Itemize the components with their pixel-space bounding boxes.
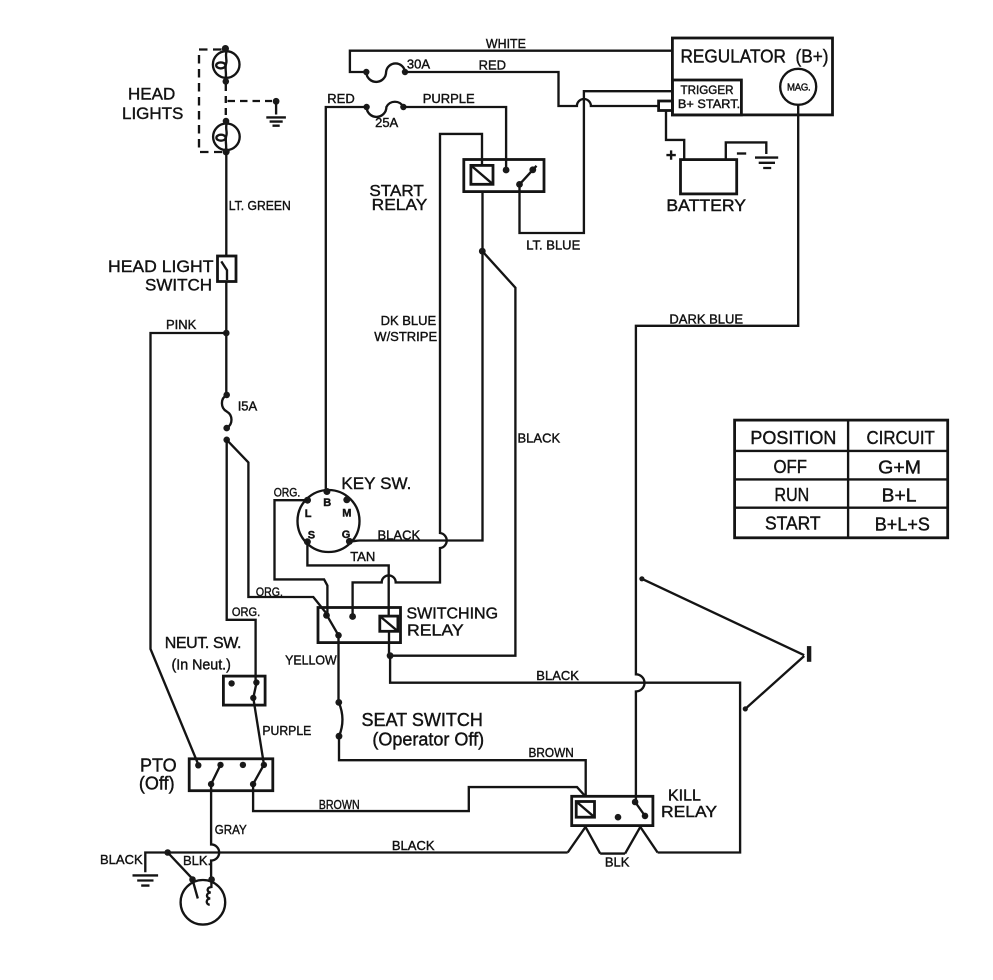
svg-text:M: M xyxy=(342,508,351,520)
svg-text:HEAD LIGHT: HEAD LIGHT xyxy=(108,257,214,276)
start relay contacts xyxy=(503,166,537,188)
wire PURPLE (25A to start relay contact) xyxy=(403,91,506,168)
fuse 30A xyxy=(363,57,430,82)
svg-text:SWITCHING: SWITCHING xyxy=(407,606,499,623)
svg-text:(In Neut.): (In Neut.) xyxy=(172,656,231,673)
battery xyxy=(666,160,746,216)
svg-text:SEAT SWITCH: SEAT SWITCH xyxy=(362,710,483,730)
svg-text:S: S xyxy=(308,530,315,542)
svg-text:REGULATOR (B+): REGULATOR (B+) xyxy=(681,47,829,67)
wire BLACK (ground bus) xyxy=(100,838,568,872)
svg-text:OFF: OFF xyxy=(774,457,808,477)
svg-text:DK BLUE: DK BLUE xyxy=(381,313,437,328)
wire DK BLUE W/STRIPE (start relay coil to switching relay, hops at y=540.5 and x=388.7) xyxy=(353,134,482,615)
connector B+ START xyxy=(659,101,673,111)
wire coil to black node xyxy=(388,631,390,655)
svg-text:GRAY: GRAY xyxy=(215,822,247,837)
svg-text:POSITION: POSITION xyxy=(750,428,836,448)
svg-text:BLACK: BLACK xyxy=(536,668,579,683)
node ground bus to engine xyxy=(164,849,171,856)
seat switch SEAT SWITCH xyxy=(335,699,484,750)
node on black wire xyxy=(479,248,486,255)
engine magneto xyxy=(181,876,226,924)
svg-text:TRIGGER: TRIGGER xyxy=(681,83,734,97)
svg-text:B+L+S: B+L+S xyxy=(875,515,930,535)
svg-text:RELAY: RELAY xyxy=(661,804,717,821)
svg-text:BLACK: BLACK xyxy=(100,852,143,867)
label HEAD LIGHTS xyxy=(122,85,183,123)
key switch KEY SW. xyxy=(298,474,412,552)
kill relay contacts xyxy=(615,799,649,821)
svg-text:BLK.: BLK. xyxy=(183,853,211,868)
svg-text:PINK: PINK xyxy=(166,317,197,332)
svg-text:B+ START.: B+ START. xyxy=(678,97,740,111)
svg-text:MAG.: MAG. xyxy=(787,82,810,94)
head light lamp 2 xyxy=(213,118,240,156)
svg-text:I5A: I5A xyxy=(238,399,258,414)
svg-text:YELLOW: YELLOW xyxy=(285,653,337,668)
switching relay box xyxy=(318,606,498,643)
svg-text:LT. GREEN: LT. GREEN xyxy=(229,198,291,213)
svg-text:B+L: B+L xyxy=(882,486,917,506)
wire BLACK (key G to start relay coil) xyxy=(349,192,482,543)
ground (head lights) xyxy=(266,98,286,126)
svg-text:G: G xyxy=(342,529,351,541)
PTO switch xyxy=(139,756,273,794)
node below fuse xyxy=(223,437,230,444)
svg-text:ORG.: ORG. xyxy=(256,585,283,599)
svg-text:RELAY: RELAY xyxy=(372,197,428,214)
svg-text:G+M: G+M xyxy=(878,458,921,478)
svg-text:DARK BLUE: DARK BLUE xyxy=(669,312,743,327)
wire RED to key switch B xyxy=(326,107,367,490)
svg-text:NEUT. SW.: NEUT. SW. xyxy=(165,635,241,652)
wire BLK (kill relay legs to ground bus) xyxy=(568,827,658,870)
svg-text:BLACK: BLACK xyxy=(392,838,435,853)
svg-text:RED: RED xyxy=(327,91,354,106)
svg-text:ORG.: ORG. xyxy=(274,486,301,500)
switching relay coil xyxy=(380,616,398,631)
wire WHITE xyxy=(350,36,673,72)
node switching relay output xyxy=(387,652,394,659)
wire RED (30A to B+ start connector, hop at x=584) xyxy=(405,58,659,106)
wire PURPLE (neut sw to PTO) xyxy=(253,698,311,764)
start relay coil xyxy=(471,165,493,184)
svg-text:SWITCH: SWITCH xyxy=(145,276,212,295)
trigger box xyxy=(672,80,741,115)
svg-text:LT. BLUE: LT. BLUE xyxy=(526,238,580,253)
wire BLK. (ground bus to engine) xyxy=(168,853,211,879)
node pink tee xyxy=(223,330,230,337)
head light switch xyxy=(108,256,236,295)
svg-text:TAN: TAN xyxy=(350,549,375,564)
svg-text:RELAY: RELAY xyxy=(407,623,464,640)
svg-text:RED: RED xyxy=(479,58,506,73)
svg-text:ORG.: ORG. xyxy=(232,605,260,619)
wire YELLOW (switching relay to seat switch) xyxy=(285,635,338,700)
svg-text:BATTERY: BATTERY xyxy=(666,196,746,215)
wire battery positive xyxy=(666,111,684,160)
table POSITION/CIRCUIT xyxy=(735,420,948,538)
fuse 15A xyxy=(222,392,258,432)
ground (battery) xyxy=(755,158,778,168)
switching relay contacts xyxy=(323,612,356,639)
svg-text:BLACK: BLACK xyxy=(378,527,421,542)
wire TAN (key S to switching relay coil) xyxy=(307,542,388,616)
wire LT. GREEN (lamps to head light switch) xyxy=(226,152,290,256)
svg-text:BLK: BLK xyxy=(605,855,630,870)
kill relay coil xyxy=(576,802,594,818)
svg-text:W/STRIPE: W/STRIPE xyxy=(374,329,437,344)
kill relay box xyxy=(572,787,718,825)
wire PINK (down left side to PTO) xyxy=(151,317,227,764)
head light lamp 1 xyxy=(213,45,240,85)
svg-text:BROWN: BROWN xyxy=(529,745,574,760)
MAG. magneto terminal xyxy=(780,69,816,105)
svg-text:B: B xyxy=(323,497,331,509)
dashed wire to ground xyxy=(228,100,273,102)
neutral switch NEUT. SW. xyxy=(165,635,265,705)
wire BROWN (seat switch to kill relay coil) xyxy=(339,736,586,796)
wire DARK BLUE (MAG to kill relay, hop at y=683) xyxy=(636,105,798,802)
svg-text:WHITE: WHITE xyxy=(486,36,526,51)
wire head light switch to pink node xyxy=(225,282,227,395)
svg-text:HEAD: HEAD xyxy=(128,85,175,104)
wire GRAY (PTO to engine, hop at y=852.5) xyxy=(211,784,247,879)
svg-text:CIRCUIT: CIRCUIT xyxy=(867,428,935,448)
svg-text:PTO: PTO xyxy=(140,756,177,776)
wire LT. BLUE (start relay blade to trigger) xyxy=(520,91,673,253)
label I with leader lines xyxy=(639,576,811,711)
wire BLACK (to switching relay bottom) xyxy=(390,251,560,656)
svg-text:30A: 30A xyxy=(407,57,430,72)
ground (chassis) xyxy=(133,875,159,885)
svg-text:25A: 25A xyxy=(375,115,398,130)
svg-text:KEY SW.: KEY SW. xyxy=(341,474,411,493)
svg-text:PURPLE: PURPLE xyxy=(423,91,475,106)
wire BLACK (switching relay to kill relay) xyxy=(390,656,740,853)
svg-text:PURPLE: PURPLE xyxy=(262,723,311,738)
wire ORG. (fuse to neutral switch) xyxy=(227,440,260,682)
svg-text:(Operator Off): (Operator Off) xyxy=(372,730,484,750)
wire ORG. (key L to switching relay) xyxy=(274,486,328,614)
wire BROWN (PTO to kill relay coil) xyxy=(253,784,585,812)
svg-text:LIGHTS: LIGHTS xyxy=(122,104,183,123)
dashed wire between lamps xyxy=(225,84,227,118)
wire battery negative xyxy=(726,142,767,159)
head lights dashed enclosure xyxy=(199,50,222,153)
svg-text:KILL: KILL xyxy=(668,787,701,804)
fuse 25A xyxy=(327,91,406,130)
svg-text:START: START xyxy=(765,514,821,534)
svg-text:BROWN: BROWN xyxy=(319,797,360,812)
svg-text:(Off): (Off) xyxy=(139,774,175,794)
regulator box xyxy=(672,38,832,115)
start relay box xyxy=(369,160,544,215)
svg-text:RUN: RUN xyxy=(775,485,810,505)
svg-text:L: L xyxy=(305,508,312,520)
svg-text:BLACK: BLACK xyxy=(518,430,561,445)
wire ORG. (fuse branch to switching relay) xyxy=(227,440,327,614)
